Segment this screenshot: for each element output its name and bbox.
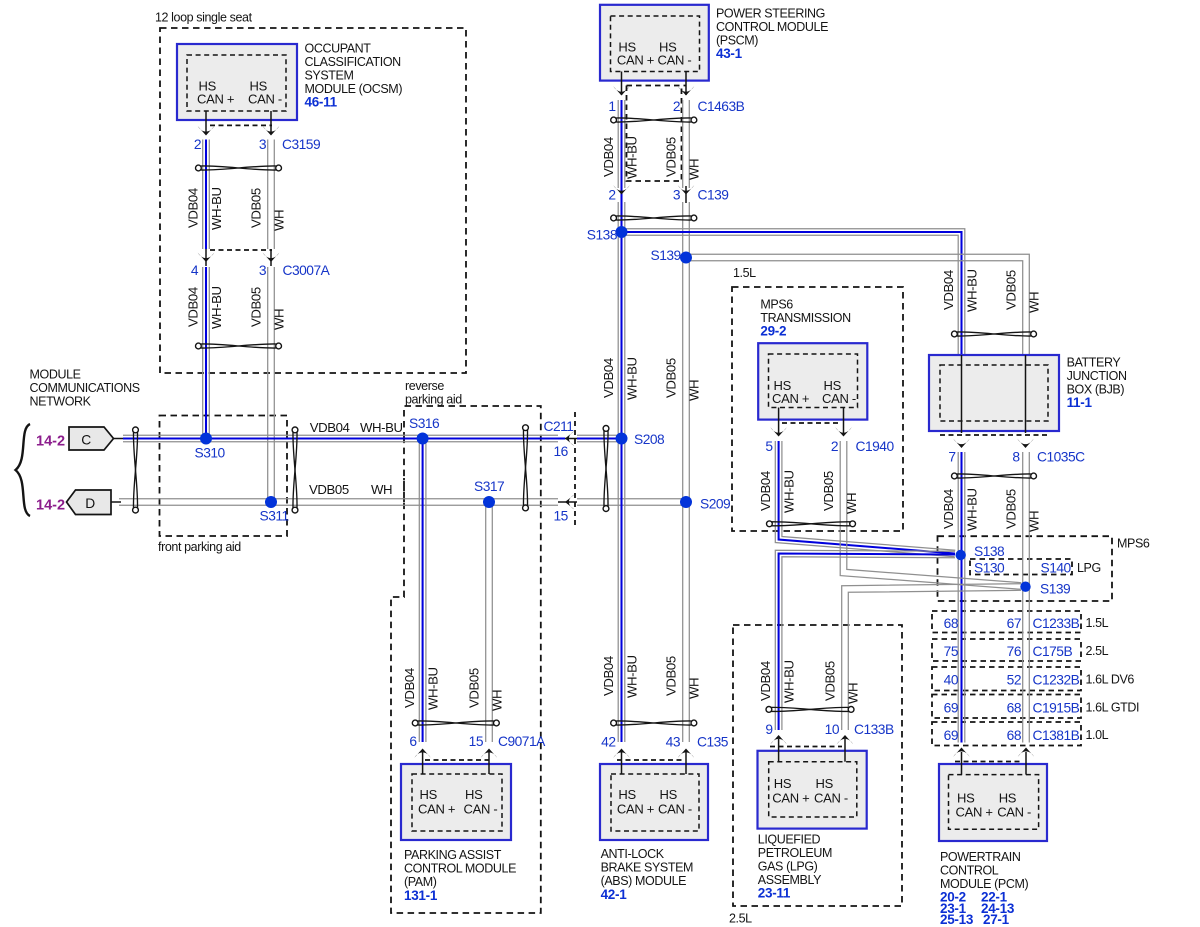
connector face dashed line C1940 [782, 422, 840, 424]
twisted pair symbol [611, 215, 697, 221]
splice S317 [483, 496, 495, 508]
svg-text:1.5L: 1.5L [1086, 616, 1109, 630]
svg-text:16: 16 [554, 444, 569, 459]
svg-text:40: 40 [944, 673, 959, 688]
svg-text:S130: S130 [974, 561, 1005, 576]
twisted pair symbol [603, 426, 609, 512]
svg-text:S139: S139 [1040, 582, 1071, 597]
svg-text:3: 3 [259, 263, 267, 278]
svg-text:CAN +: CAN + [617, 802, 654, 817]
svg-text:C135: C135 [697, 735, 729, 750]
svg-text:MODULE: MODULE [30, 368, 81, 382]
svg-text:C: C [81, 433, 91, 448]
wire VDB05 WH MPS6 C1940->S139 [840, 441, 1021, 589]
svg-text:VDB04: VDB04 [758, 471, 773, 511]
dashed box: MPS6 splice region [938, 536, 1113, 601]
svg-text:CAN -: CAN - [997, 805, 1031, 820]
splice S209 [680, 496, 692, 508]
arrow from PAM to C9071A pin 6 [414, 749, 430, 758]
svg-text:68: 68 [1007, 728, 1022, 743]
svg-text:CAN +: CAN + [197, 92, 234, 107]
svg-text:CONTROL MODULE: CONTROL MODULE [404, 862, 516, 876]
svg-text:HS: HS [618, 787, 636, 802]
dashed box: PCM connector row C1233B [932, 611, 1081, 633]
module box OCSM (occupant classification system module) [177, 44, 297, 120]
svg-text:WH: WH [687, 678, 702, 699]
svg-text:68: 68 [1007, 701, 1022, 716]
wire stub through C211 pin 15 [558, 501, 577, 503]
module box PAM (parking assist control module) [401, 764, 511, 840]
svg-text:SYSTEM: SYSTEM [305, 69, 354, 83]
svg-text:WH-BU: WH-BU [965, 488, 980, 531]
svg-text:CAN +: CAN + [956, 805, 993, 820]
svg-text:WH-BU: WH-BU [209, 286, 224, 329]
svg-text:C139: C139 [698, 188, 730, 203]
svg-text:7: 7 [948, 450, 955, 465]
svg-text:PARKING ASSIST: PARKING ASSIST [404, 848, 502, 862]
svg-text:S310: S310 [195, 446, 226, 461]
svg-text:2: 2 [831, 439, 838, 454]
svg-text:CAN -: CAN - [822, 391, 856, 406]
svg-text:WH-BU: WH-BU [782, 660, 797, 703]
connector face dashed line C3159 [210, 124, 272, 126]
svg-text:43-1: 43-1 [716, 46, 743, 61]
arrow into C3007A pin 3 [263, 253, 279, 262]
module PSCM pin stubs [621, 72, 623, 96]
svg-text:HS: HS [957, 791, 975, 806]
arrow into C1463B pin 2 [678, 86, 694, 95]
svg-text:CAN +: CAN + [617, 53, 654, 68]
module BJB through-wires [961, 355, 963, 433]
twisted pair symbol [952, 473, 1037, 479]
svg-text:GAS (LPG): GAS (LPG) [758, 860, 818, 874]
module PAM pin stubs [422, 751, 424, 774]
svg-text:CAN -: CAN - [248, 92, 282, 107]
svg-text:VDB04: VDB04 [941, 489, 956, 529]
svg-text:VDB05: VDB05 [249, 287, 264, 327]
svg-text:WH: WH [846, 683, 861, 704]
arrow into C211 pin 15 [565, 495, 574, 510]
arrow from PCM (VDB05) [1018, 748, 1034, 757]
arrow into C1940 pin 5 [770, 427, 786, 436]
svg-text:C1035C: C1035C [1037, 450, 1085, 465]
svg-text:CAN +: CAN + [418, 802, 455, 817]
wire VDB04 WH-BU MPS6 C1940->S138 [775, 441, 955, 557]
arrow into C3159 pin 3 [263, 126, 279, 135]
svg-text:52: 52 [1007, 673, 1021, 688]
splice S139 (lower) [1020, 582, 1030, 592]
arrow into C1463B pin 1 [613, 86, 629, 95]
wire VDB04 WH-BU S316->PAM [419, 439, 426, 743]
svg-text:42-1: 42-1 [601, 887, 628, 902]
twisted pair symbol [412, 720, 499, 726]
svg-text:14-2: 14-2 [36, 434, 65, 450]
svg-text:3: 3 [673, 188, 681, 203]
connector face dashed line C3007A [210, 249, 272, 251]
arrow into C139 pin 2 [613, 185, 629, 194]
dashed box: PCM connector row C175B [932, 639, 1081, 661]
svg-text:PETROLEUM: PETROLEUM [758, 846, 832, 860]
wire VDB04 WH-BU BJB C1035C->S138->PCM [958, 452, 965, 743]
svg-text:2.5L: 2.5L [1086, 644, 1109, 658]
svg-text:HS: HS [999, 791, 1017, 806]
svg-text:CLASSIFICATION: CLASSIFICATION [305, 55, 402, 69]
svg-text:27-1: 27-1 [983, 912, 1010, 927]
arrow from LPG to C133B pin 9 [770, 735, 786, 744]
dashed box: LPG option (2.5L) [733, 625, 902, 906]
wire VDB04 WH-BU LPG C133B->S138 [775, 550, 955, 730]
svg-text:(PAM): (PAM) [404, 875, 437, 889]
svg-text:2: 2 [608, 188, 615, 203]
svg-text:WH-BU: WH-BU [625, 136, 640, 179]
connector C211 dashed boundary [574, 412, 576, 527]
svg-text:1: 1 [608, 99, 615, 114]
svg-text:VDB05: VDB05 [664, 656, 679, 696]
svg-text:1.6L GTDI: 1.6L GTDI [1086, 701, 1140, 715]
svg-text:VDB04: VDB04 [310, 420, 350, 435]
svg-text:46-11: 46-11 [305, 95, 338, 110]
svg-text:CAN +: CAN + [772, 391, 809, 406]
svg-text:S311: S311 [260, 509, 289, 524]
dashed box: MPS6 transmission option (1.5L) [732, 287, 903, 531]
svg-text:POWER STEERING: POWER STEERING [716, 7, 825, 21]
svg-text:C133B: C133B [854, 722, 894, 737]
twisted pair symbol [133, 427, 139, 513]
svg-text:29-2: 29-2 [760, 324, 786, 339]
svg-text:6: 6 [409, 734, 417, 749]
svg-text:C1381B: C1381B [1033, 728, 1080, 743]
svg-text:VDB04: VDB04 [941, 270, 956, 310]
arrow into C1035C pin 7 [953, 439, 969, 448]
module ABS pin stubs [621, 751, 623, 774]
svg-text:S138: S138 [587, 228, 618, 243]
module box ABS (anti-lock brake system module) [600, 764, 708, 840]
arrow from PAM to C9071A pin 15 [481, 749, 497, 758]
svg-text:69: 69 [944, 701, 959, 716]
dashed box: front parking aid [160, 416, 288, 537]
svg-text:1.5L: 1.5L [733, 266, 756, 280]
svg-text:CONTROL MODULE: CONTROL MODULE [716, 20, 828, 34]
arrow into C1940 pin 2 [835, 427, 851, 436]
svg-text:C175B: C175B [1033, 644, 1073, 659]
svg-text:VDB05: VDB05 [821, 471, 836, 511]
svg-text:2.5L: 2.5L [729, 912, 752, 926]
svg-text:WH-BU: WH-BU [625, 357, 640, 400]
svg-text:VDB05: VDB05 [664, 137, 679, 177]
wire stub through C3007A pin 3 [270, 249, 272, 266]
svg-text:15: 15 [554, 509, 569, 524]
arrow from ABS to C135 pin 43 [678, 749, 694, 758]
svg-text:69: 69 [944, 728, 959, 743]
svg-text:VDB04: VDB04 [758, 661, 773, 701]
svg-text:15: 15 [469, 734, 484, 749]
arrow into C1035C pin 8 [1017, 439, 1033, 448]
svg-text:C1463B: C1463B [698, 99, 745, 114]
svg-text:WH: WH [272, 210, 287, 231]
svg-text:NETWORK: NETWORK [30, 395, 92, 409]
svg-text:HS: HS [420, 787, 438, 802]
svg-text:C1232B: C1232B [1033, 673, 1080, 688]
module box PCM (powertrain control module) [939, 764, 1047, 841]
dashed box: reverse parking aid [391, 406, 541, 913]
wire VDB05 WH C139->S139->S209->ABS [683, 202, 690, 742]
module box PSCM (power steering control module) [600, 5, 709, 81]
connector face dashed line C1035C [940, 434, 1048, 436]
svg-text:WH: WH [272, 309, 287, 330]
twisted pair symbol [196, 343, 282, 349]
svg-text:C3159: C3159 [282, 137, 321, 152]
svg-text:C1233B: C1233B [1033, 616, 1080, 631]
svg-text:42: 42 [601, 735, 615, 750]
module box BJB (battery junction box) [929, 355, 1059, 431]
wire VDB05 WH C211->S209 [577, 499, 686, 506]
svg-text:LPG: LPG [1077, 561, 1101, 575]
svg-text:D: D [85, 496, 95, 511]
svg-text:WH-BU: WH-BU [782, 470, 797, 513]
dashed harness box: 12 loop single seat [160, 28, 466, 373]
connector tag C [69, 427, 114, 450]
svg-text:25-13: 25-13 [940, 912, 974, 927]
svg-text:C3007A: C3007A [283, 263, 331, 278]
arrow from LPG to C133B pin 10 [837, 735, 853, 744]
splice S208 [616, 433, 628, 445]
svg-text:WH-BU: WH-BU [426, 667, 441, 710]
svg-text:VDB04: VDB04 [186, 188, 201, 228]
arrow from PCM (VDB04) [953, 748, 969, 757]
splice S138 (lower) [956, 550, 966, 560]
wire VDB05 WH C3007A->S311 [268, 267, 275, 502]
wire VDB04 WH-BU C->S310->S316->C211 [123, 435, 558, 442]
dashed box: PCM connector row C1381B [932, 722, 1081, 746]
svg-text:front parking aid: front parking aid [158, 540, 241, 554]
module box MPS6 transmission [758, 343, 867, 419]
svg-text:VDB04: VDB04 [601, 656, 616, 696]
svg-text:WH-BU: WH-BU [965, 269, 980, 312]
module OCSM pin stubs [205, 111, 207, 135]
twisted pair symbol [766, 707, 854, 713]
svg-text:C1915B: C1915B [1033, 701, 1080, 716]
svg-text:9: 9 [765, 722, 773, 737]
svg-text:76: 76 [1007, 644, 1022, 659]
wire VDB05 WH BJB C1035C->S139->PCM [1023, 452, 1030, 743]
svg-text:CAN -: CAN - [814, 791, 848, 806]
svg-text:HS: HS [774, 776, 792, 791]
svg-text:VDB05: VDB05 [467, 668, 482, 708]
svg-text:WH-BU: WH-BU [360, 420, 403, 435]
svg-text:2: 2 [194, 137, 201, 152]
svg-text:HS: HS [660, 787, 678, 802]
svg-text:S317: S317 [474, 479, 504, 494]
svg-text:S138: S138 [974, 544, 1005, 559]
svg-text:WH: WH [490, 690, 505, 711]
svg-text:VDB04: VDB04 [402, 668, 417, 708]
svg-text:HS: HS [465, 787, 483, 802]
splice S139 (upper) [680, 252, 692, 264]
svg-text:S316: S316 [409, 416, 440, 431]
svg-text:1.6L DV6: 1.6L DV6 [1086, 673, 1135, 687]
wire VDB05 WH LPG C133B->S139 [842, 584, 1021, 730]
svg-text:VDB05: VDB05 [1004, 270, 1019, 310]
twisted pair symbol [292, 427, 298, 513]
arrow from ABS to C135 pin 42 [613, 749, 629, 758]
svg-text:BATTERY: BATTERY [1067, 356, 1122, 370]
wire VDB05 WH PSCM->C139 [683, 100, 690, 188]
dashed box: PCM connector row C1915B [932, 695, 1081, 719]
svg-text:CAN -: CAN - [464, 802, 498, 817]
module PCM pin stubs [961, 752, 963, 775]
svg-text:(ABS) MODULE: (ABS) MODULE [601, 874, 687, 888]
svg-text:VDB05: VDB05 [1004, 489, 1019, 529]
svg-text:2: 2 [673, 99, 680, 114]
svg-text:68: 68 [944, 616, 959, 631]
svg-text:JUNCTION: JUNCTION [1067, 369, 1127, 383]
wire VDB04 WH-BU C139->S138->S208->ABS [618, 202, 625, 742]
arrow into C3007A pin 4 [198, 253, 214, 262]
svg-text:WH: WH [687, 159, 702, 180]
svg-text:12 loop single seat: 12 loop single seat [155, 11, 253, 25]
svg-text:75: 75 [944, 644, 959, 659]
svg-text:VDB05: VDB05 [664, 358, 679, 398]
svg-text:MPS6: MPS6 [1117, 537, 1150, 551]
svg-text:S139: S139 [651, 248, 682, 263]
svg-text:BRAKE SYSTEM: BRAKE SYSTEM [601, 861, 693, 875]
wire VDB05 WH D->S311->S317->C211 [119, 499, 558, 506]
svg-text:131-1: 131-1 [404, 888, 438, 903]
twisted pair symbol [611, 720, 697, 726]
module LPG pin stubs [778, 739, 780, 762]
connector face dashed line PCM [955, 761, 1020, 763]
svg-text:HS: HS [816, 776, 834, 791]
svg-text:1.0L: 1.0L [1086, 728, 1109, 742]
wire VDB05 WH S317->PAM [486, 502, 493, 742]
svg-text:S209: S209 [700, 497, 731, 512]
twisted pair symbol [196, 165, 282, 171]
wire stub through C3007A pin 4 [205, 249, 207, 266]
svg-text:parking aid: parking aid [405, 393, 462, 407]
svg-text:CAN +: CAN + [772, 791, 809, 806]
svg-text:WH-BU: WH-BU [625, 655, 640, 698]
splice S310 [200, 433, 212, 445]
wire stub from tag D [111, 501, 121, 503]
svg-text:11-1: 11-1 [1067, 395, 1093, 410]
dashed box: PSCM inline harness between C1463B and C139 [627, 86, 687, 182]
dashed box: LPG splice region [970, 559, 1072, 575]
arrow into C139 pin 3 [678, 185, 694, 194]
arrow into C3159 pin 2 [198, 126, 214, 135]
svg-text:VDB05: VDB05 [309, 482, 349, 497]
arrow into C211 pin 16 [565, 431, 574, 446]
svg-text:C9071A: C9071A [498, 734, 546, 749]
svg-text:POWERTRAIN: POWERTRAIN [940, 850, 1021, 864]
svg-text:reverse: reverse [405, 379, 444, 393]
connector face dashed line C9071A [425, 759, 489, 761]
wire VDB04 WH-BU S138->BJB [622, 229, 965, 355]
splice S311 [265, 496, 277, 508]
wire VDB04 WH-BU PSCM->C139 [618, 100, 625, 188]
twisted pair symbol [523, 425, 529, 511]
svg-text:14-2: 14-2 [36, 498, 65, 514]
svg-text:VDB04: VDB04 [601, 137, 616, 177]
connector face dashed line C133B [770, 746, 842, 748]
svg-text:VDB05: VDB05 [249, 188, 264, 228]
svg-text:CAN -: CAN - [658, 802, 692, 817]
svg-text:4: 4 [191, 263, 199, 278]
svg-text:10: 10 [825, 722, 840, 737]
twisted pair symbol [952, 331, 1037, 337]
module box LPG assembly [758, 751, 867, 829]
dashed box: PCM connector row C1232B [932, 667, 1081, 691]
svg-text:COMMUNICATIONS: COMMUNICATIONS [30, 381, 140, 395]
module MPS6 pin stubs [778, 408, 780, 436]
svg-text:C211: C211 [544, 419, 574, 434]
svg-text:MPS6: MPS6 [760, 298, 793, 312]
wire stub through C211 pin 16 [565, 438, 577, 440]
svg-text:CAN -: CAN - [658, 53, 692, 68]
svg-text:OCCUPANT: OCCUPANT [305, 42, 372, 56]
svg-text:3: 3 [259, 137, 267, 152]
svg-text:S140: S140 [1041, 561, 1072, 576]
wire VDB04 WH-BU C3007A->S310 [203, 267, 210, 439]
wire stub through C139 pin 3 [685, 186, 687, 203]
svg-text:23-11: 23-11 [758, 886, 791, 901]
wire VDB05 WH S139->BJB [686, 254, 1029, 355]
connector face dashed line C135 [617, 759, 682, 761]
svg-text:5: 5 [765, 439, 773, 454]
twisted pair symbol [611, 117, 697, 123]
svg-text:43: 43 [666, 735, 681, 750]
twisted pair symbol [767, 521, 856, 527]
svg-text:WH: WH [687, 380, 702, 401]
svg-text:C1940: C1940 [856, 439, 895, 454]
svg-text:S208: S208 [634, 432, 665, 447]
wire VDB05 WH OCSM C3159->C3007A [268, 140, 275, 250]
svg-text:WH: WH [371, 482, 392, 497]
brace (module communications network) [16, 424, 31, 516]
svg-text:WH-BU: WH-BU [209, 187, 224, 230]
wire stub from tag C [114, 438, 125, 440]
splice S316 [417, 433, 429, 445]
svg-text:VDB05: VDB05 [823, 661, 838, 701]
svg-text:ANTI-LOCK: ANTI-LOCK [601, 847, 665, 861]
splice S138 (upper) [616, 226, 628, 238]
svg-text:67: 67 [1007, 616, 1021, 631]
svg-text:WH: WH [844, 493, 859, 514]
svg-text:VDB04: VDB04 [601, 358, 616, 398]
svg-text:LIQUEFIED: LIQUEFIED [758, 833, 821, 847]
svg-text:WH: WH [1027, 292, 1042, 313]
svg-text:8: 8 [1012, 450, 1020, 465]
wire VDB04 WH-BU C211->S208 [577, 435, 622, 442]
svg-text:CONTROL: CONTROL [940, 864, 999, 878]
connector tag D [67, 490, 112, 515]
svg-text:VDB04: VDB04 [186, 287, 201, 327]
svg-text:WH: WH [1027, 511, 1042, 532]
wire VDB04 WH-BU OCSM C3159->C3007A [203, 140, 210, 250]
